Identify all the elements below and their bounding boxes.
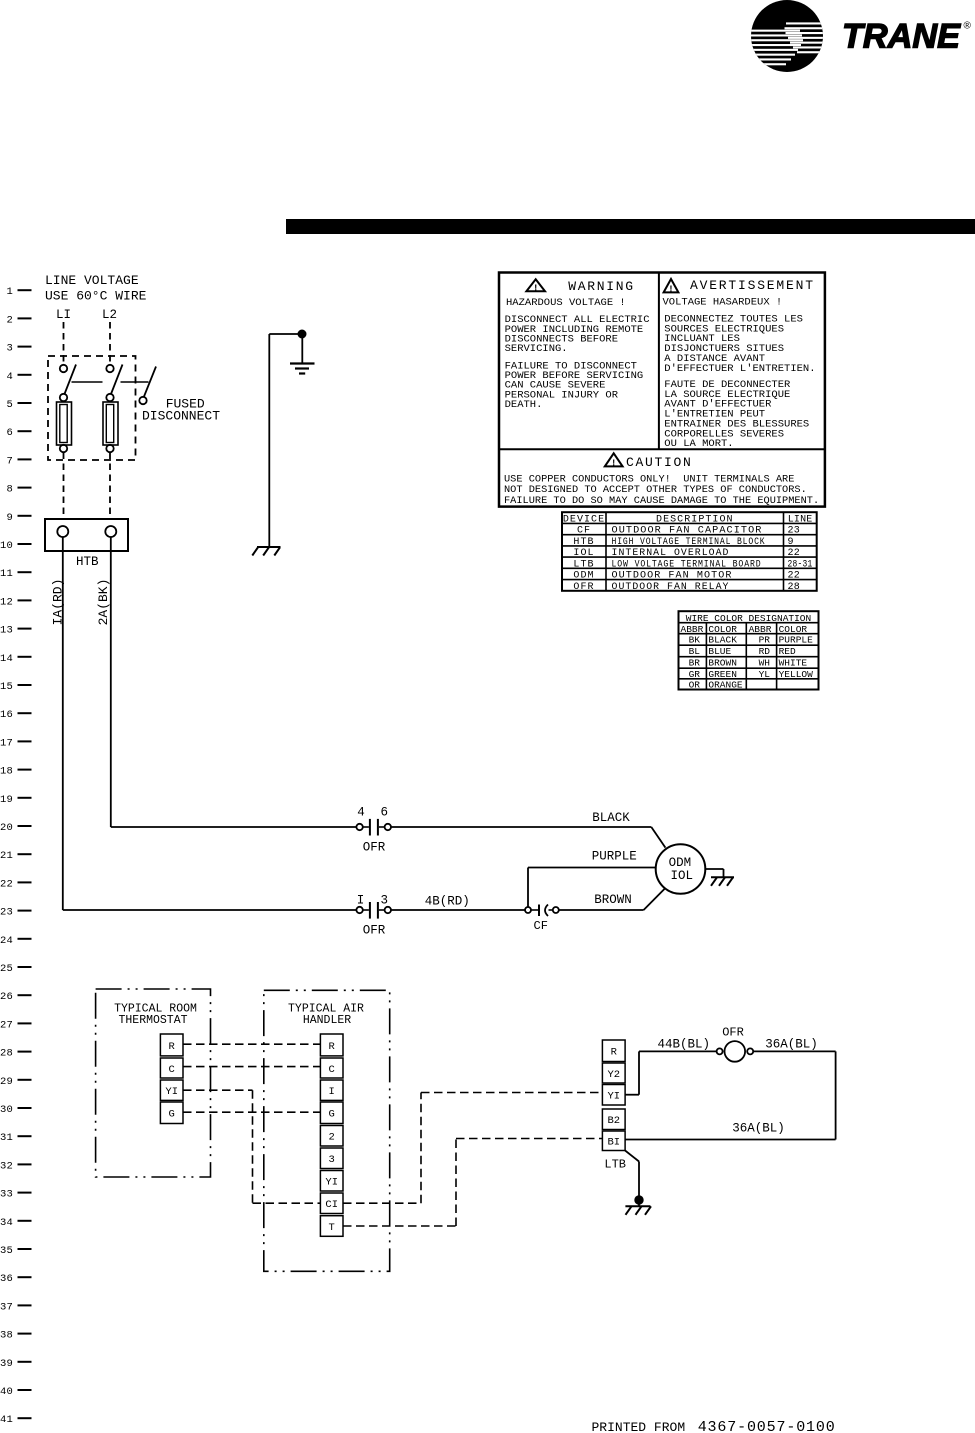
svg-text:33: 33 — [0, 1189, 13, 1201]
svg-text:YI: YI — [325, 1177, 338, 1189]
svg-text:LTB: LTB — [573, 559, 594, 570]
wire PURPLE vertical — [527, 868, 529, 908]
wire L1 dashed lead — [63, 322, 65, 365]
caution triangle icon — [605, 453, 623, 468]
svg-text:BROWN: BROWN — [708, 658, 737, 669]
warning triangle icon (avertissement) — [664, 279, 679, 295]
svg-text:25: 25 — [0, 963, 13, 975]
svg-text:HANDLER: HANDLER — [303, 1014, 351, 1027]
svg-text:28: 28 — [0, 1048, 13, 1060]
air handler terminal CI — [320, 1193, 343, 1214]
svg-text:32: 32 — [0, 1160, 13, 1172]
svg-text:28-31: 28-31 — [788, 559, 813, 570]
svg-text:!: ! — [533, 282, 539, 293]
svg-text:LINE: LINE — [788, 514, 813, 525]
wire R-R dashed — [183, 1043, 320, 1045]
terminal block HTB — [45, 519, 128, 551]
typical air handler enclosure (dash-dot box) — [264, 990, 390, 1271]
pin label 1 — [357, 894, 365, 908]
svg-text:CI: CI — [325, 1199, 338, 1211]
svg-text:HAZARDOUS VOLTAGE !: HAZARDOUS VOLTAGE ! — [506, 297, 626, 309]
svg-text:12: 12 — [0, 596, 13, 608]
black header bar — [286, 219, 975, 234]
label IA(RD) — [51, 579, 66, 626]
svg-text:41: 41 — [0, 1414, 13, 1426]
svg-text:I: I — [329, 1086, 335, 1098]
svg-text:OUTDOOR FAN RELAY: OUTDOOR FAN RELAY — [612, 582, 730, 593]
svg-text:WIRE COLOR DESIGNATION: WIRE COLOR DESIGNATION — [686, 613, 811, 624]
switch mechanical link segment 2 — [121, 381, 149, 383]
svg-text:®: ® — [964, 21, 972, 32]
thermostat terminal C — [160, 1058, 183, 1078]
label OFR (coil) — [722, 1025, 744, 1039]
svg-text:15: 15 — [0, 681, 13, 693]
svg-text:11: 11 — [0, 568, 13, 580]
warning text english — [505, 297, 650, 411]
svg-text:19: 19 — [0, 794, 13, 806]
svg-text:37: 37 — [0, 1301, 13, 1313]
svg-text:22: 22 — [0, 878, 13, 890]
svg-text:THERMOSTAT: THERMOSTAT — [118, 1014, 187, 1027]
wire L2 dashed lead — [109, 322, 111, 365]
wire BROWN diagonal to ODM — [644, 889, 665, 911]
svg-text:DEATH.: DEATH. — [505, 399, 543, 411]
device legend table — [562, 512, 817, 593]
svg-text:31: 31 — [0, 1132, 13, 1144]
svg-text:GREEN: GREEN — [708, 669, 737, 680]
note LINE VOLTAGE USE 60C WIRE — [45, 273, 147, 304]
svg-text:BLACK: BLACK — [708, 635, 737, 646]
svg-text:14: 14 — [0, 653, 13, 665]
svg-text:ODM: ODM — [573, 571, 594, 582]
svg-text:OFR: OFR — [363, 840, 386, 854]
svg-text:HIGH VOLTAGE TERMINAL BLOCK: HIGH VOLTAGE TERMINAL BLOCK — [612, 537, 766, 548]
thermostat terminal G — [160, 1102, 183, 1124]
svg-text:WHITE: WHITE — [779, 658, 808, 669]
svg-text:IOL: IOL — [573, 548, 594, 559]
ground (chassis) below LTB — [625, 1204, 651, 1215]
svg-text:6: 6 — [380, 806, 388, 820]
svg-text:YI: YI — [165, 1086, 178, 1098]
svg-text:YELLOW: YELLOW — [779, 669, 814, 680]
caution text — [504, 473, 819, 507]
svg-text:OFR: OFR — [573, 582, 594, 593]
svg-text:VOLTAGE HASARDEUX !: VOLTAGE HASARDEUX ! — [663, 297, 783, 309]
svg-text:7: 7 — [6, 455, 13, 467]
svg-text:38: 38 — [0, 1330, 13, 1342]
svg-text:21: 21 — [0, 850, 13, 862]
svg-text:9: 9 — [788, 537, 794, 548]
svg-text:TRANE: TRANE — [842, 17, 961, 55]
relay contact OFR 1-3 — [356, 902, 391, 919]
wire OFR coil to LTB BI (36A) — [625, 1051, 836, 1139]
svg-text:22: 22 — [788, 548, 801, 559]
pin label 3 — [380, 894, 388, 908]
label 4B(RD) — [425, 895, 470, 909]
svg-text:44B(BL): 44B(BL) — [658, 1038, 711, 1052]
label CF — [534, 919, 548, 933]
svg-text:BLACK: BLACK — [592, 811, 630, 825]
ground (chassis) below drop — [252, 547, 280, 556]
wire 2A(BK) vertical — [110, 537, 112, 827]
footer PRINTED FROM 4367-0057-0100 — [592, 1419, 836, 1433]
ruler line numbers and ticks — [0, 286, 32, 1426]
svg-text:RED: RED — [779, 646, 796, 657]
svg-text:24: 24 — [0, 935, 13, 947]
label LTB — [604, 1158, 626, 1172]
svg-text:Y2: Y2 — [607, 1069, 620, 1081]
svg-text:LOW VOLTAGE TERMINAL BOARD: LOW VOLTAGE TERMINAL BOARD — [612, 559, 762, 570]
svg-text:1: 1 — [6, 286, 13, 298]
fused disconnect enclosure (dashed box) — [48, 356, 136, 460]
svg-text:L2: L2 — [102, 308, 117, 322]
svg-text:R: R — [611, 1047, 618, 1059]
svg-text:16: 16 — [0, 709, 13, 721]
svg-text:20: 20 — [0, 822, 13, 834]
svg-text:34: 34 — [0, 1217, 13, 1229]
wire dashed lead fuse1 to HTB — [63, 453, 65, 518]
svg-text:C: C — [329, 1064, 335, 1076]
svg-text:LINE VOLTAGE: LINE VOLTAGE — [45, 273, 139, 288]
node L2 — [102, 308, 117, 322]
svg-text:YL: YL — [759, 669, 771, 680]
svg-text:13: 13 — [0, 625, 13, 637]
svg-text:23: 23 — [0, 907, 13, 919]
label HTB — [76, 555, 99, 569]
svg-text:G: G — [169, 1109, 175, 1121]
air handler terminal C — [320, 1058, 343, 1078]
relay contact OFR 4-6 — [356, 819, 391, 836]
title WARNING — [568, 279, 635, 294]
air handler terminal 2 — [320, 1126, 343, 1147]
wire 1A(RD) vertical — [62, 537, 64, 910]
label PURPLE — [592, 850, 637, 864]
svg-text:INTERNAL OVERLOAD: INTERNAL OVERLOAD — [612, 548, 730, 559]
warning-caution label box frame — [499, 273, 825, 507]
svg-text:8: 8 — [6, 484, 13, 496]
label FUSED DISCONNECT — [142, 397, 220, 424]
capacitor CF — [525, 905, 559, 917]
junction dot at LTB ground — [635, 1196, 643, 1204]
svg-text:PURPLE: PURPLE — [592, 850, 637, 864]
svg-text:9: 9 — [6, 512, 13, 524]
svg-text:4367-0057-0100: 4367-0057-0100 — [698, 1419, 836, 1433]
svg-text:D'EFFECTUER L'ENTRETIEN.: D'EFFECTUER L'ENTRETIEN. — [664, 363, 815, 375]
pin label 4 — [357, 806, 365, 820]
LTB terminal YI — [602, 1085, 625, 1106]
svg-text:SERVICING.: SERVICING. — [505, 343, 568, 355]
wire LTB YI to OFR coil — [625, 1051, 717, 1094]
svg-text:CAUTION: CAUTION — [626, 455, 693, 470]
switch pole 2 (L2) — [106, 365, 122, 402]
svg-text:RD: RD — [759, 646, 771, 657]
svg-text:36A(BL): 36A(BL) — [732, 1121, 785, 1135]
warning text french — [663, 297, 816, 451]
wire BLACK horizontal — [391, 826, 651, 828]
thermostat terminal R — [160, 1034, 183, 1056]
svg-text:PURPLE: PURPLE — [779, 635, 814, 646]
svg-text:IOL: IOL — [671, 869, 694, 883]
svg-text:OFR: OFR — [363, 924, 386, 938]
svg-text:6: 6 — [6, 427, 13, 439]
wire ground drop — [268, 334, 270, 547]
svg-text:BK: BK — [689, 635, 701, 646]
switch pole 3 — [139, 367, 156, 405]
label 2A(BK) — [96, 579, 111, 626]
Trane logo globe emblem — [748, 0, 828, 72]
pin label 6 — [380, 806, 388, 820]
svg-text:17: 17 — [0, 737, 13, 749]
label 44B(BL) — [658, 1038, 711, 1052]
wire PURPLE horizontal — [528, 867, 656, 869]
svg-text:LTB: LTB — [604, 1158, 626, 1172]
svg-text:T: T — [329, 1222, 335, 1234]
svg-text:WH: WH — [759, 658, 770, 669]
svg-text:5: 5 — [6, 399, 13, 411]
wire color designation table — [679, 611, 819, 691]
wire C-C dashed — [183, 1066, 320, 1068]
fuse F2 — [103, 402, 118, 452]
label TYPICAL ROOM THERMOSTAT — [114, 1003, 197, 1028]
svg-text:HTB: HTB — [573, 537, 594, 548]
svg-text:ABBR: ABBR — [749, 624, 772, 635]
svg-text:ABBR: ABBR — [681, 624, 704, 635]
LTB terminal R — [602, 1040, 625, 1062]
ground (earth) with supply stub — [269, 330, 314, 373]
label BLACK — [592, 811, 630, 825]
svg-text:23: 23 — [788, 526, 801, 537]
svg-text:R: R — [329, 1041, 336, 1053]
wire BLACK diagonal to ODM — [651, 827, 665, 848]
wire air handler T to LTB BI (dashed) — [343, 1139, 602, 1227]
svg-text:35: 35 — [0, 1245, 13, 1257]
svg-text:4: 4 — [6, 371, 13, 383]
svg-text:2: 2 — [329, 1132, 335, 1144]
svg-text:BROWN: BROWN — [594, 893, 632, 907]
svg-text:28: 28 — [788, 582, 801, 593]
air handler terminal R — [320, 1034, 343, 1056]
svg-text:R: R — [169, 1041, 176, 1053]
svg-text:DESCRIPTION: DESCRIPTION — [656, 514, 734, 525]
svg-text:3: 3 — [380, 894, 388, 908]
wire LTB BI to ground — [625, 1151, 639, 1198]
label TYPICAL AIR HANDLER — [288, 1003, 364, 1028]
svg-text:BR: BR — [689, 658, 701, 669]
svg-text:OFR: OFR — [722, 1025, 744, 1039]
svg-text:2: 2 — [6, 314, 13, 326]
svg-text:!: ! — [611, 459, 616, 469]
svg-text:I: I — [357, 894, 365, 908]
wire BROWN horizontal — [559, 909, 644, 911]
title AVERTISSEMENT — [690, 278, 815, 293]
relay coil OFR — [717, 1041, 754, 1062]
svg-text:COLOR: COLOR — [708, 624, 737, 635]
svg-text:WARNING: WARNING — [568, 279, 635, 294]
motor ODM with internal overload IOL — [656, 844, 706, 894]
svg-text:G: G — [329, 1109, 335, 1121]
wire 1A(RD) horizontal to OFR 1-3 — [63, 909, 357, 911]
svg-text:C: C — [169, 1064, 175, 1076]
label 36A(BL) lower — [732, 1121, 785, 1135]
svg-text:36A(BL): 36A(BL) — [765, 1038, 818, 1052]
svg-text:27: 27 — [0, 1019, 13, 1031]
svg-text:LI: LI — [56, 308, 71, 322]
svg-text:3: 3 — [6, 343, 13, 355]
svg-text:2A(BK): 2A(BK) — [96, 579, 111, 626]
node L1 — [56, 308, 71, 322]
switch mechanical link segment 1 — [72, 381, 103, 383]
svg-text:OUTDOOR FAN CAPACITOR: OUTDOOR FAN CAPACITOR — [612, 526, 763, 537]
svg-text:FAILURE TO DO SO MAY CAUSE DAM: FAILURE TO DO SO MAY CAUSE DAMAGE TO THE… — [504, 495, 819, 507]
svg-text:COLOR: COLOR — [779, 624, 808, 635]
svg-text:BLUE: BLUE — [708, 646, 731, 657]
label BROWN — [594, 893, 632, 907]
title CAUTION — [626, 455, 693, 470]
svg-text:!: ! — [668, 285, 673, 295]
svg-text:OR: OR — [689, 680, 701, 691]
svg-text:GR: GR — [689, 669, 701, 680]
svg-text:ORANGE: ORANGE — [708, 680, 743, 691]
svg-text:30: 30 — [0, 1104, 13, 1116]
svg-text:22: 22 — [788, 571, 801, 582]
svg-text:YI: YI — [607, 1091, 620, 1103]
svg-text:BI: BI — [607, 1137, 620, 1149]
wire dashed lead fuse2 to HTB — [109, 453, 111, 518]
svg-text:OU LA MORT.: OU LA MORT. — [664, 438, 733, 450]
air handler terminal 3 — [320, 1148, 343, 1169]
svg-text:PRINTED FROM: PRINTED FROM — [592, 1420, 686, 1433]
wire thermostat YI to air handler CI (dashed) — [183, 1090, 320, 1203]
svg-text:USE 60°C WIRE: USE 60°C WIRE — [45, 289, 147, 304]
svg-text:18: 18 — [0, 766, 13, 778]
LTB terminal BI — [602, 1131, 625, 1151]
svg-text:3: 3 — [329, 1154, 335, 1166]
wire 4B(RD) to CF — [391, 909, 525, 911]
air handler terminal T — [320, 1216, 343, 1237]
svg-text:AVERTISSEMENT: AVERTISSEMENT — [690, 278, 815, 293]
svg-text:HTB: HTB — [76, 555, 99, 569]
svg-text:PR: PR — [759, 635, 771, 646]
svg-text:40: 40 — [0, 1386, 13, 1398]
svg-text:39: 39 — [0, 1358, 13, 1370]
svg-text:4: 4 — [357, 806, 365, 820]
svg-text:BL: BL — [689, 646, 701, 657]
label OFR (contact 4-6) — [363, 840, 386, 854]
svg-text:OUTDOOR FAN MOTOR: OUTDOOR FAN MOTOR — [612, 571, 733, 582]
thermostat terminal YI — [160, 1080, 183, 1100]
wire G-G dashed — [183, 1111, 320, 1113]
switch pole 1 (L1) — [60, 365, 76, 402]
wire 2A(BK) horizontal to OFR 4-6 — [111, 826, 357, 828]
ground (chassis) at ODM — [705, 869, 734, 886]
Trane wordmark — [842, 17, 972, 55]
svg-text:4B(RD): 4B(RD) — [425, 895, 470, 909]
svg-text:CF: CF — [577, 526, 591, 537]
LTB terminal B2 — [602, 1109, 625, 1130]
warning triangle icon — [526, 279, 545, 293]
svg-text:DEVICE: DEVICE — [563, 514, 605, 525]
air handler terminal G — [320, 1102, 343, 1124]
label 36A(BL) upper — [765, 1038, 818, 1052]
svg-text:CF: CF — [534, 919, 548, 933]
fuse F1 — [57, 402, 72, 452]
LTB terminal Y2 — [602, 1063, 625, 1083]
svg-text:10: 10 — [0, 540, 13, 552]
air handler terminal YI — [320, 1171, 343, 1192]
wire air handler CI to LTB YI (dashed) — [343, 1093, 602, 1204]
svg-text:DISCONNECT: DISCONNECT — [142, 409, 220, 424]
svg-text:36: 36 — [0, 1273, 13, 1285]
svg-text:ODM: ODM — [669, 856, 692, 870]
svg-text:B2: B2 — [607, 1115, 620, 1127]
air handler terminal I — [320, 1080, 343, 1100]
svg-text:29: 29 — [0, 1076, 13, 1088]
typical room thermostat enclosure (dash-dot box) — [96, 989, 211, 1177]
svg-text:26: 26 — [0, 991, 13, 1003]
label OFR (contact 1-3) — [363, 924, 386, 938]
svg-text:IA(RD): IA(RD) — [51, 579, 66, 626]
